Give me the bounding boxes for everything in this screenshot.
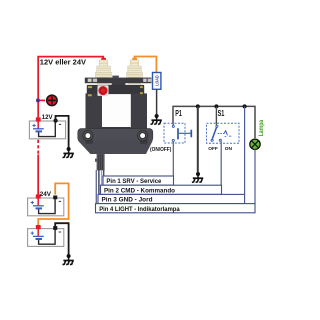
relay top bar <box>87 85 144 94</box>
svg-text:Pin 1 SRV - Service: Pin 1 SRV - Service <box>106 178 161 185</box>
pin label box 4 <box>96 204 256 213</box>
relay mounting bracket <box>78 129 153 142</box>
wire lamp to Pin4 box <box>254 149 256 203</box>
relay U1 battery isolator <box>78 58 153 171</box>
node junction <box>243 104 247 108</box>
svg-text:Lampa: Lampa <box>258 119 265 136</box>
lamp L1 indicator <box>250 139 260 149</box>
node junction <box>196 104 200 108</box>
svg-text:12V eller 24V: 12V eller 24V <box>40 58 86 66</box>
svg-text:P1: P1 <box>175 109 182 118</box>
switch P1 momentary pushbutton <box>164 123 191 143</box>
svg-text:OFF: OFF <box>208 146 218 152</box>
svg-text:Pin 4 LIGHT - Indikatorlampa: Pin 4 LIGHT - Indikatorlampa <box>99 206 180 213</box>
wire supply red 12V/24V feed <box>38 57 103 196</box>
ground GND4 <box>63 256 74 265</box>
svg-text:ON: ON <box>225 146 233 152</box>
relay terminal stud left <box>96 60 112 84</box>
svg-text:Pin 2 CMD - Kommando: Pin 2 CMD - Kommando <box>104 187 175 194</box>
node junction <box>214 104 218 108</box>
pin label box 3 <box>98 194 245 203</box>
ground GND2 <box>151 116 162 124</box>
node dot <box>67 254 71 258</box>
terminal cap red <box>101 58 106 62</box>
wire orange series jumper B2 to B3 <box>38 183 68 225</box>
wire bus to ground <box>197 106 199 172</box>
wire Pin3 box to bus <box>244 106 246 194</box>
wire pin3 lead <box>98 170 100 194</box>
node dot <box>155 114 159 118</box>
node dot <box>67 147 71 151</box>
svg-text:Pin 3 GND - Jord: Pin 3 GND - Jord <box>102 197 153 204</box>
svg-text:(ON/OFF): (ON/OFF) <box>150 147 172 153</box>
battery B2 24V upper <box>28 194 64 215</box>
wire pin2 lead <box>101 170 103 185</box>
relay body columns and label <box>86 93 103 128</box>
svg-text:S1: S1 <box>218 109 225 118</box>
relay terminal stud right <box>127 60 143 84</box>
wire black B1 negative to ground <box>56 116 69 147</box>
battery B1 12V <box>29 117 65 138</box>
pin label box 2 <box>101 185 222 194</box>
wire S1 to Pin2 box <box>220 141 222 185</box>
relay center knob <box>112 76 118 79</box>
relay connector <box>97 154 105 170</box>
switch S1 toggle <box>207 123 240 143</box>
battery B3 24V lower <box>28 225 64 246</box>
wire pin4 lead <box>95 170 97 204</box>
relay red button <box>98 85 109 96</box>
fuse F1 (circuit breaker) <box>47 95 57 105</box>
wire bus to S1 <box>215 106 217 123</box>
wire pin1 lead <box>103 170 105 176</box>
terminal cap orange <box>132 58 137 62</box>
wire P1 to Pin1 box <box>172 142 174 177</box>
svg-text:12V: 12V <box>42 114 53 121</box>
wire ground bus <box>173 106 255 138</box>
relay terminal rail <box>85 78 152 84</box>
wire orange relay output to LOAD <box>135 57 157 73</box>
node dot <box>196 172 200 176</box>
component LOAD box <box>153 73 161 90</box>
wire black B3 negative to ground <box>55 223 68 254</box>
ground GND3 <box>192 174 203 182</box>
relay yellow accents <box>88 86 92 88</box>
ground GND1 <box>63 149 74 158</box>
wire LOAD to ground <box>156 89 158 114</box>
svg-text:LOAD: LOAD <box>155 75 160 86</box>
pin label box 1 <box>103 176 174 185</box>
svg-text:24V: 24V <box>40 191 52 198</box>
node fuse tap junction <box>36 99 45 102</box>
